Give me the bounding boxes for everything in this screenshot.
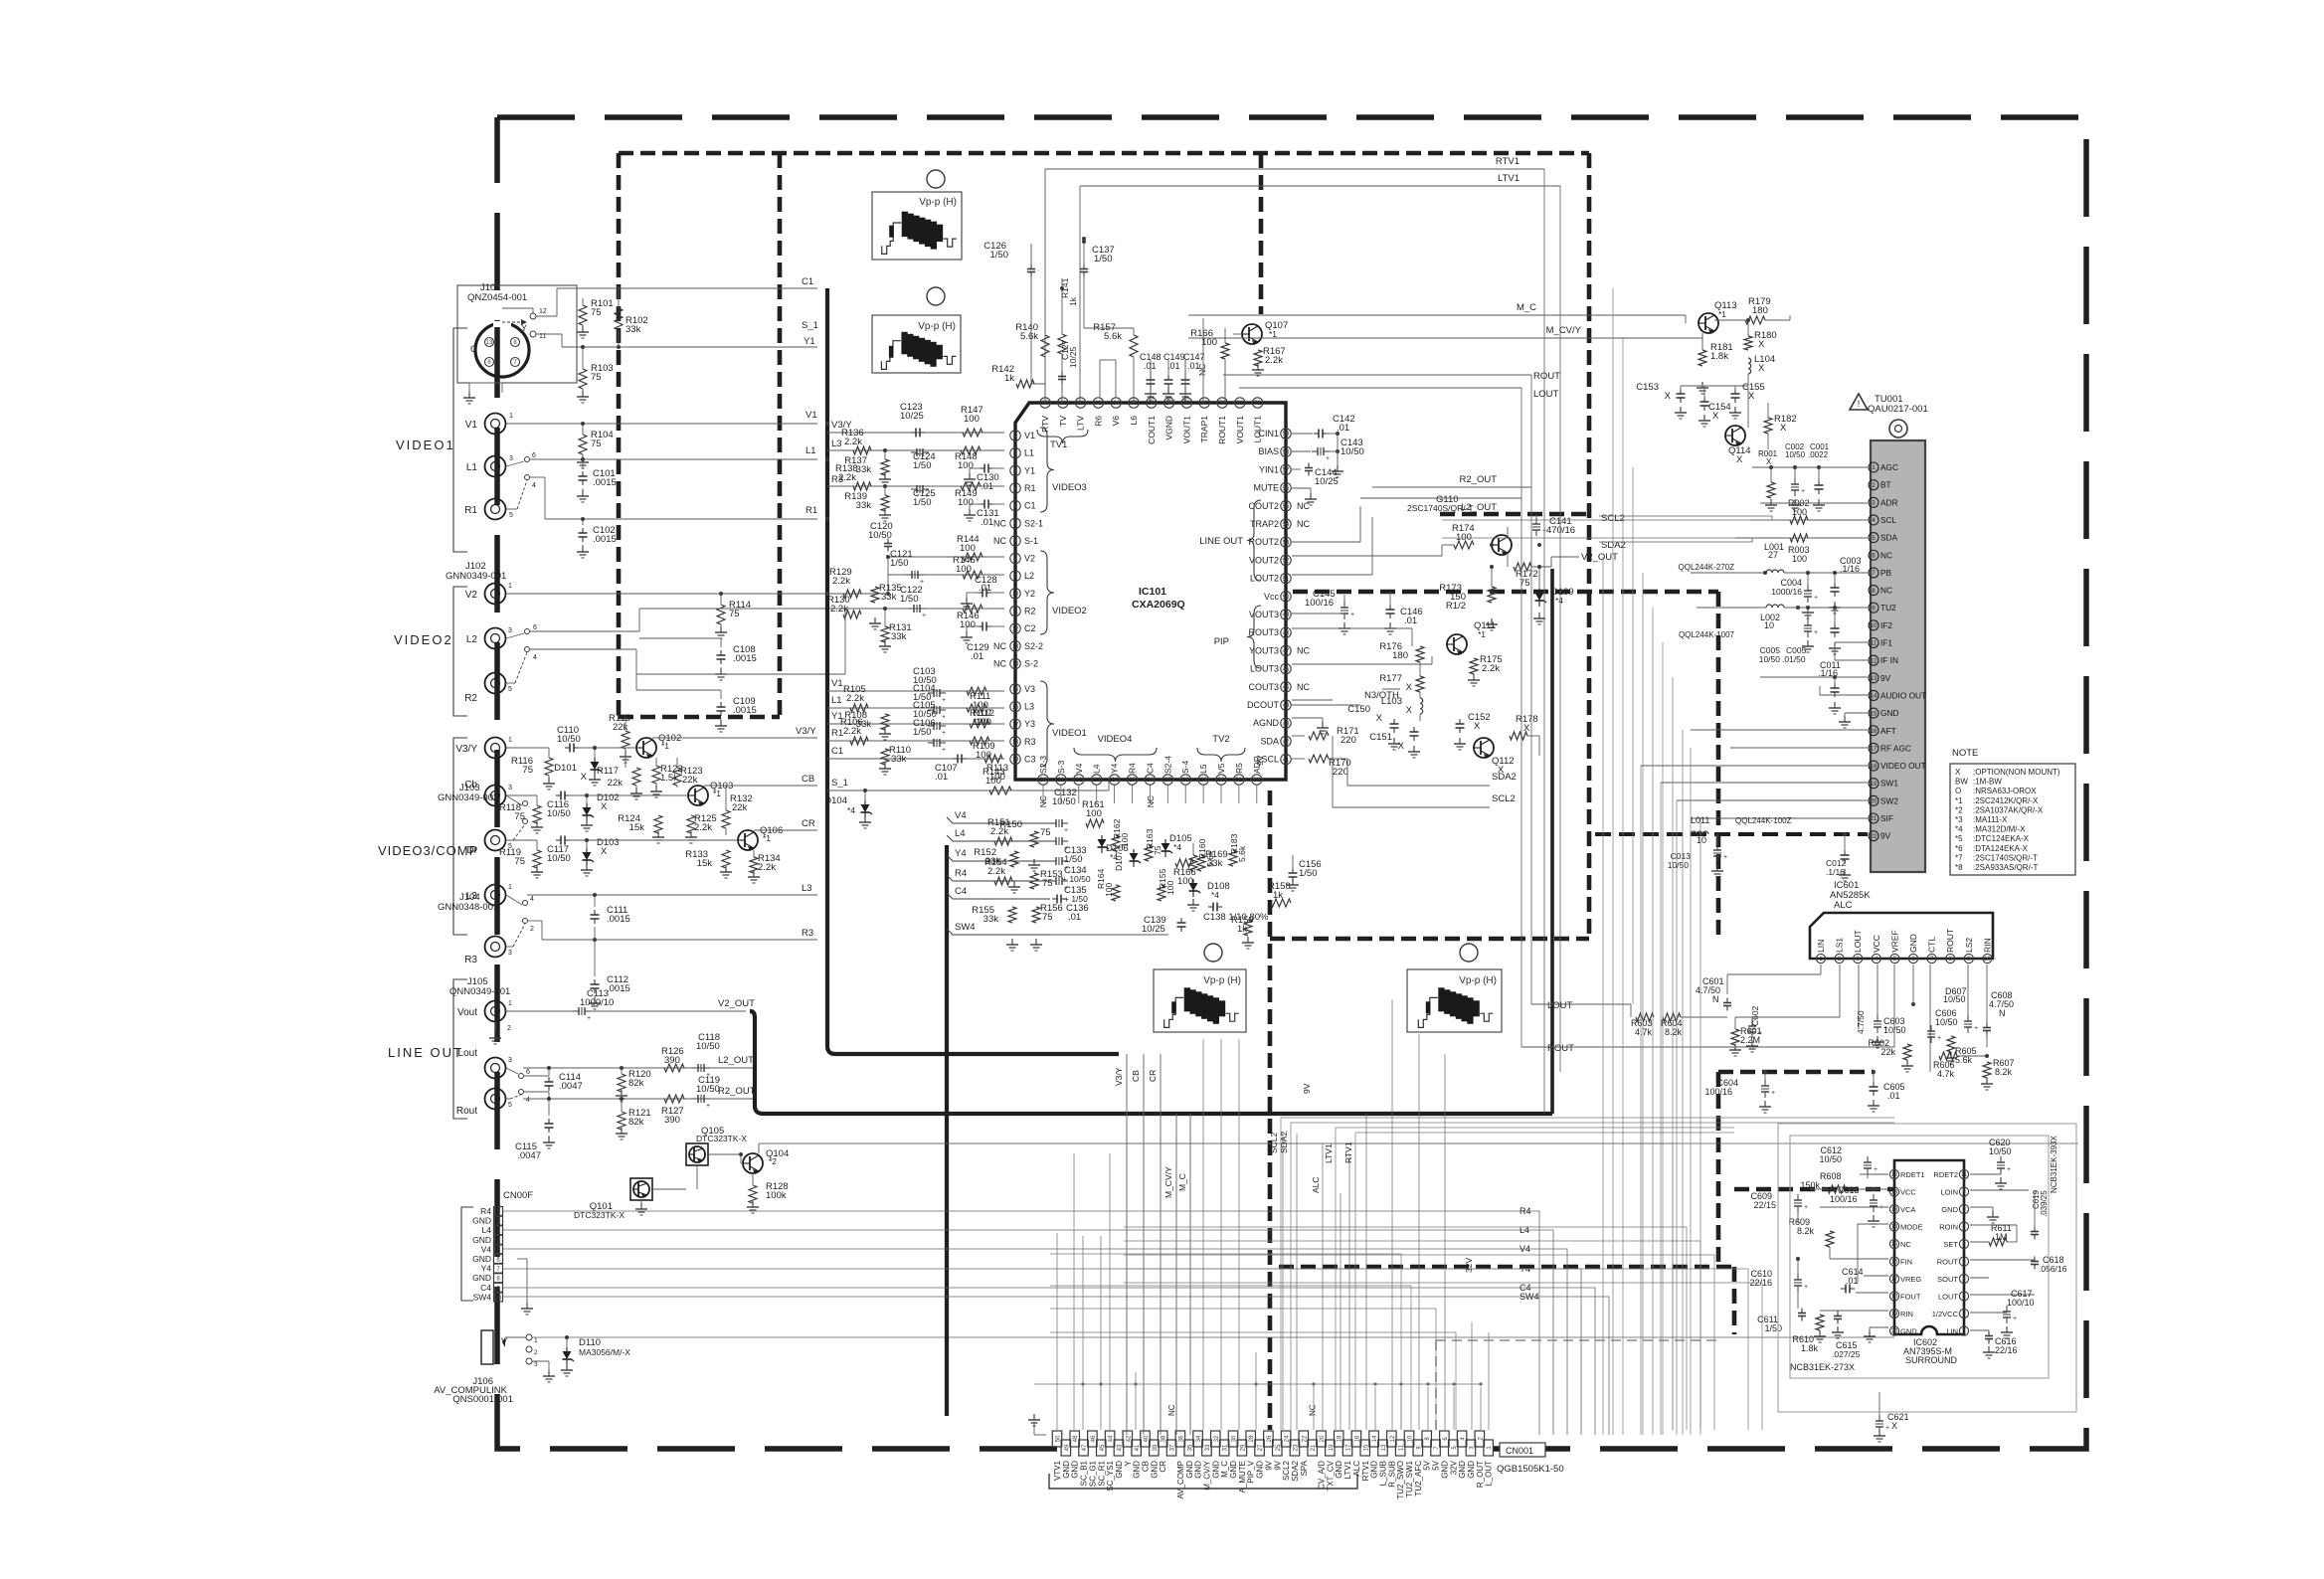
- connector CN001 pin 40 CB: [1141, 1431, 1151, 1447]
- svg-text:10: 10: [1984, 957, 1991, 963]
- IC602 left pin VCA: [1889, 1204, 1898, 1213]
- svg-text:10/50: 10/50: [868, 530, 892, 541]
- wire R2 to IC: [636, 673, 845, 675]
- svg-text:R4: R4: [955, 868, 967, 879]
- svg-text::MA111-X: :MA111-X: [1973, 815, 2008, 824]
- svg-text:5.6k: 5.6k: [1104, 331, 1122, 342]
- connector CN001 pin 42 Y: [1123, 1431, 1133, 1447]
- svg-text:16: 16: [1012, 705, 1019, 711]
- svg-text:Vp-p (H): Vp-p (H): [919, 197, 957, 208]
- brace VIDEO4 group: [1074, 748, 1157, 762]
- IC602 left pin NC: [1889, 1239, 1898, 1248]
- wire M_CV/Y drop: [1175, 1114, 1177, 1435]
- capacitor C120: [887, 539, 889, 544]
- svg-text:+: +: [942, 747, 946, 754]
- net R2_OUT wire: [1372, 486, 1531, 488]
- svg-text:1/50: 1/50: [1064, 854, 1083, 865]
- wire CN001 feeder: [1126, 1054, 1128, 1430]
- wire SW2: [1677, 799, 1868, 801]
- svg-text:100: 100: [1792, 507, 1807, 517]
- connector CN00F pin 4 GND: [494, 1235, 503, 1244]
- svg-text:LOUT: LOUT: [1533, 389, 1559, 400]
- capacitor C151: [1413, 727, 1415, 732]
- wire CN001 feeder: [1391, 999, 1393, 1430]
- IC101 left pin L1: [1010, 447, 1020, 457]
- wire vertical net: [1682, 730, 1684, 1435]
- svg-text:10/50: 10/50: [1989, 1146, 2012, 1156]
- svg-text:75: 75: [1042, 912, 1053, 923]
- inner dashed partition top line: [619, 151, 1589, 156]
- svg-text:R1: R1: [831, 728, 843, 739]
- bus thick vertical center: [945, 845, 949, 1416]
- svg-text:2: 2: [530, 926, 534, 933]
- bus stair C4: [947, 893, 1050, 899]
- svg-text:19: 19: [1871, 782, 1877, 788]
- svg-text:Cb: Cb: [464, 780, 477, 790]
- wire RF AGC: [1730, 747, 1868, 749]
- warning triangle: [1850, 394, 1868, 410]
- svg-text:V3/Y: V3/Y: [1114, 1067, 1124, 1086]
- svg-text:L1: L1: [805, 445, 816, 456]
- capacitor C135: [1055, 877, 1057, 885]
- svg-text:VCC: VCC: [1900, 1187, 1916, 1196]
- J101 switch pins 12 11: [530, 313, 536, 319]
- resistor R109: [970, 737, 989, 745]
- wire CN001 feeder: [1374, 1387, 1376, 1430]
- connector CN001 pin 17 LTV1: [1342, 1440, 1352, 1456]
- wire vertical net: [1690, 748, 1692, 1435]
- svg-text:Y4: Y4: [481, 1264, 492, 1274]
- connector CN001 pin 11 TU2_SWO: [1395, 1440, 1405, 1456]
- resistor R103: [582, 347, 584, 369]
- wire SCL2 drop: [1281, 1118, 1894, 1430]
- wire L1 to IC L3: [827, 707, 1004, 709]
- svg-text:10: 10: [495, 1296, 502, 1302]
- tuner pin 4 SCL: [1869, 515, 1878, 525]
- resistor R105: [850, 704, 868, 712]
- svg-text:S_1: S_1: [802, 320, 818, 331]
- svg-text:SCL2: SCL2: [1282, 1460, 1291, 1481]
- wire LOUT drop: [1858, 965, 1860, 1029]
- IC101 left pin Y1: [1010, 465, 1020, 475]
- wire ROUT 602: [1970, 1259, 2035, 1261]
- wire vertical net: [1672, 677, 1674, 1143]
- wire SW1: [1661, 782, 1868, 784]
- svg-text:55: 55: [1283, 504, 1290, 510]
- capacitor D607: [1964, 1020, 1972, 1022]
- svg-text:V4: V4: [481, 1244, 492, 1254]
- svg-text:100: 100: [1104, 883, 1114, 897]
- resistor R123: [673, 768, 681, 786]
- tuner pin 7 PB: [1869, 568, 1878, 578]
- IC101 top pin R6: [1093, 398, 1103, 408]
- IC101 right pin BIAS: [1281, 446, 1291, 456]
- wire S_1 to IC: [1108, 780, 1110, 790]
- svg-text:5: 5: [509, 512, 513, 519]
- svg-text:75: 75: [1040, 827, 1051, 838]
- IC101 bottom pin L5: [1198, 775, 1208, 785]
- connector CN001 pin 30 GND: [1228, 1431, 1238, 1447]
- svg-text:R608: R608: [1820, 1171, 1842, 1181]
- svg-text:52: 52: [1283, 559, 1290, 565]
- bus stair L4: [947, 835, 1050, 841]
- dashed line to tuner 9V pin: [1595, 832, 1868, 836]
- wire ROUT1 top: [1202, 318, 1204, 403]
- svg-text:1k: 1k: [1273, 890, 1283, 901]
- op-amp IC101 CXA2069Q body: [1015, 403, 1286, 780]
- connector CN001 pin 28 PIP_V: [1246, 1431, 1256, 1447]
- svg-text:14: 14: [1871, 694, 1877, 700]
- connector CN001 pin 35 GND: [1184, 1440, 1194, 1456]
- tuner TU001 mounting ear: [1889, 420, 1907, 438]
- wire CN001 feeder: [1444, 1054, 1446, 1430]
- svg-text:SCL2: SCL2: [1492, 793, 1516, 804]
- svg-text:.1/16: .1/16: [1840, 564, 1860, 574]
- inductor L103: [1420, 698, 1423, 714]
- VIDEO1 group bracket: [453, 328, 467, 552]
- svg-text:+: +: [1937, 1035, 1941, 1042]
- wire V2 up: [721, 593, 888, 595]
- svg-text:CIN1: CIN1: [1258, 429, 1279, 439]
- AGND ground: [1292, 717, 1323, 719]
- svg-text:62: 62: [1077, 401, 1084, 407]
- jack R1: [485, 499, 506, 520]
- svg-text:LINE OUT: LINE OUT: [1199, 536, 1243, 547]
- svg-text:22/16: 22/16: [1995, 1345, 2018, 1355]
- svg-text:100: 100: [964, 414, 980, 425]
- wire M_C drop: [1189, 1114, 1191, 1435]
- wire SOUT: [1970, 1277, 1989, 1279]
- wire L3: [527, 894, 595, 896]
- svg-text:D107: D107: [1114, 850, 1124, 871]
- svg-text:QNN0349-001: QNN0349-001: [449, 986, 510, 997]
- svg-text:5.6k: 5.6k: [1955, 1055, 1973, 1065]
- svg-text:49: 49: [1283, 613, 1290, 618]
- capacitor C001: [1818, 480, 1820, 485]
- resistor R156: [1032, 907, 1040, 923]
- svg-text:QQL244K-270Z: QQL244K-270Z: [1679, 563, 1735, 572]
- capacitor C105: [933, 722, 935, 730]
- wire CN001 feeder: [1135, 1372, 1137, 1430]
- svg-text:RTV1: RTV1: [1496, 156, 1520, 167]
- svg-text:VOUT1: VOUT1: [1181, 416, 1191, 444]
- svg-text:20: 20: [1891, 1329, 1898, 1335]
- svg-text:Vcc: Vcc: [1264, 592, 1280, 602]
- svg-text:10/50: 10/50: [1052, 796, 1076, 807]
- svg-text:ROUT: ROUT: [1533, 371, 1560, 382]
- capacitor C136: [1052, 898, 1057, 900]
- switch S-CbDr: [523, 801, 528, 806]
- svg-text:4: 4: [526, 1097, 530, 1104]
- capacitor C124: [916, 448, 918, 456]
- svg-text:SW2: SW2: [1880, 795, 1898, 805]
- svg-text:NC: NC: [1297, 645, 1310, 655]
- svg-text:AUDIO OUT: AUDIO OUT: [1880, 690, 1926, 700]
- svg-text:*5: *5: [1955, 834, 1963, 843]
- svg-text:53: 53: [1283, 540, 1290, 546]
- svg-text:100: 100: [960, 619, 976, 630]
- wire LOIN: [1970, 1189, 2029, 1191]
- svg-text:.056/16: .056/16: [2039, 1264, 2067, 1274]
- resistor R173: [1488, 587, 1496, 603]
- svg-text:1/50: 1/50: [1299, 868, 1318, 879]
- svg-text:S-1: S-1: [1024, 536, 1038, 546]
- resistor R180: [1744, 336, 1752, 350]
- svg-text:SOUT: SOUT: [1937, 1275, 1958, 1284]
- svg-text:AGND: AGND: [1253, 718, 1280, 728]
- svg-text:GND: GND: [1256, 1461, 1265, 1479]
- svg-text:33k: 33k: [891, 631, 907, 642]
- dashed partition corner horizontal: [1270, 937, 1589, 942]
- svg-text:1: 1: [509, 413, 513, 420]
- svg-text:*2: *2: [1955, 805, 1963, 814]
- svg-text:17: 17: [1012, 722, 1019, 728]
- svg-text:R2: R2: [1024, 607, 1036, 616]
- svg-text:GND: GND: [1150, 1461, 1159, 1479]
- svg-text:1000/16: 1000/16: [1771, 587, 1802, 597]
- wire V3Y out: [652, 737, 817, 739]
- svg-text:5: 5: [508, 1102, 512, 1109]
- wire RTV top: [1044, 350, 1046, 403]
- wire CN001 feeder: [1471, 1322, 1473, 1430]
- svg-text:R117: R117: [597, 766, 619, 777]
- resistor R102: [615, 308, 623, 330]
- wire R2 to IC: [861, 608, 1004, 610]
- tuner pin 6 NC: [1869, 550, 1878, 560]
- tuner pin 14 AUDIO OUT: [1869, 690, 1878, 700]
- wire ROUT2: [1292, 541, 1360, 543]
- svg-text:19: 19: [1012, 758, 1019, 764]
- wire CB drop: [1143, 1054, 1145, 1435]
- IC101 top pin TRAP1: [1199, 398, 1209, 408]
- IC101 top pin COUT1: [1147, 398, 1157, 408]
- IC101 left pin V3: [1010, 684, 1020, 694]
- svg-text:.027/25: .027/25: [1832, 1349, 1861, 1359]
- IC101 right pin SCL: [1281, 754, 1291, 764]
- svg-text:V4: V4: [1074, 763, 1084, 774]
- svg-text:TV2: TV2: [1212, 734, 1229, 745]
- capacitor C002: [1791, 483, 1799, 485]
- svg-text:1/50: 1/50: [1094, 254, 1113, 264]
- svg-text:V2: V2: [1024, 554, 1035, 564]
- svg-text:SC_YS1: SC_YS1: [1106, 1460, 1115, 1491]
- svg-text:X: X: [1758, 339, 1765, 350]
- IC601 pin 7 CTL: [1927, 954, 1936, 963]
- connector CN001 pin 12 R_SUB: [1387, 1431, 1397, 1447]
- transistor Q112: [1474, 738, 1494, 758]
- wire CN001 feeder: [1427, 1387, 1429, 1430]
- svg-text:100: 100: [958, 497, 974, 508]
- svg-text::2SC2412K/QR/-X: :2SC2412K/QR/-X: [1973, 796, 2039, 805]
- svg-text:LTV1: LTV1: [1324, 1143, 1334, 1163]
- wire L2: [529, 630, 639, 632]
- resistor R171 SDA: [1292, 735, 1305, 737]
- svg-text:X: X: [601, 801, 608, 812]
- capacitor C106: [933, 739, 935, 747]
- svg-text:TXT_CV: TXT_CV: [1326, 1460, 1335, 1491]
- jack L2: [485, 628, 506, 649]
- IC602 left pin GND: [1889, 1326, 1898, 1335]
- svg-text:.0015: .0015: [733, 653, 757, 664]
- resistor R126: [664, 1064, 684, 1072]
- connector CN001 pin 19 TXT_CV: [1326, 1440, 1336, 1456]
- resistor R114: [720, 594, 722, 605]
- capacitor C117: [556, 839, 561, 841]
- IC101 right pin ROUT3: [1281, 627, 1291, 637]
- svg-text:390: 390: [664, 1055, 680, 1066]
- svg-text:.01: .01: [1846, 1276, 1859, 1286]
- svg-text:S2-1: S2-1: [1024, 518, 1043, 528]
- waveform box 3: [1154, 969, 1246, 1032]
- svg-text:X: X: [1736, 454, 1743, 465]
- svg-text:1/50: 1/50: [913, 727, 932, 738]
- connector CN001 pin 3 GND: [1466, 1440, 1476, 1456]
- svg-text:VGND: VGND: [1164, 416, 1174, 440]
- resistor R181: [1698, 350, 1706, 366]
- capacitor C104: [933, 706, 935, 714]
- capacitor C610: [1794, 1279, 1802, 1281]
- svg-text:+ 10/50: + 10/50: [1062, 874, 1091, 884]
- wire corner net: [1050, 1254, 1401, 1430]
- IC101 right pin AGND: [1281, 718, 1291, 728]
- connector CN001 pin 43 GND: [1114, 1440, 1124, 1456]
- svg-text:.01: .01: [1404, 615, 1417, 626]
- svg-text:22k: 22k: [682, 775, 698, 786]
- net RTV1 wire: [1045, 168, 1544, 170]
- resistor R138: [853, 482, 871, 490]
- tuner pin 2 BT: [1869, 480, 1878, 490]
- IC601 pin 2 LS1: [1835, 954, 1844, 963]
- svg-text:56: 56: [1283, 486, 1290, 492]
- wire CN001 feeder: [1340, 1193, 1341, 1430]
- transistor Q113: [1698, 313, 1718, 333]
- svg-text:S2-4: S2-4: [1162, 756, 1172, 774]
- resistor R127: [664, 1095, 684, 1103]
- IC101 left pin R3: [1010, 737, 1020, 747]
- svg-text:V1: V1: [1024, 431, 1035, 440]
- svg-text:1: 1: [508, 884, 512, 891]
- svg-text:46: 46: [1283, 667, 1290, 673]
- wire Y1 to IC Y3: [827, 723, 1004, 725]
- IC601 pin 8 ROUT: [1946, 954, 1955, 963]
- svg-text:.0015: .0015: [607, 983, 630, 994]
- resistor R182: [1764, 418, 1772, 434]
- svg-text:SURROUND: SURROUND: [1905, 1355, 1958, 1365]
- wire corner net: [1050, 1286, 1411, 1430]
- IC601 pin 4 VCC: [1872, 954, 1880, 963]
- wire CN001 feeder: [1073, 1153, 1075, 1430]
- svg-text:SC_B1: SC_B1: [1080, 1460, 1089, 1486]
- net M_C wire: [1188, 314, 1686, 316]
- IC101 right pin COUT3: [1281, 682, 1291, 692]
- resistor R133: [722, 850, 730, 868]
- junction: [1060, 286, 1064, 290]
- svg-text:22k: 22k: [732, 802, 748, 813]
- wire AGC: [1752, 466, 1868, 468]
- svg-text:1000/10: 1000/10: [580, 997, 614, 1008]
- svg-text:GND: GND: [1458, 1461, 1467, 1479]
- svg-text:L4: L4: [1520, 1225, 1529, 1235]
- IC602 left pin FIN: [1889, 1257, 1898, 1266]
- connector CN001 pin 24 SCL2: [1281, 1431, 1291, 1447]
- svg-text:BT: BT: [1880, 480, 1891, 490]
- IC602 outer box: [1778, 1124, 2076, 1412]
- svg-text:66: 66: [1148, 401, 1155, 407]
- wire V3/Y drop: [1126, 1054, 1128, 1435]
- svg-text::2SA933AS/QR/-T: :2SA933AS/QR/-T: [1973, 863, 2038, 872]
- wire L2 to IC: [888, 574, 1004, 576]
- svg-text:1: 1: [508, 583, 512, 590]
- svg-text:100: 100: [960, 543, 976, 554]
- svg-text:CB: CB: [1131, 1070, 1141, 1082]
- connector CN00F pin 7 Y4: [494, 1264, 503, 1273]
- resistor R003: [1790, 534, 1808, 542]
- svg-text:LIN: LIN: [1816, 940, 1826, 953]
- IC101 left pin L2: [1010, 571, 1020, 581]
- junction: [1336, 432, 1340, 436]
- connector CN001 pin 16 ALC: [1351, 1431, 1361, 1447]
- wire CN001 feeder: [1488, 1332, 1490, 1430]
- capacitor C121: [911, 571, 913, 579]
- resistor R175: [1470, 658, 1478, 674]
- capacitor C144: [1292, 468, 1301, 470]
- IC101 top pin VOUT1: [1181, 398, 1191, 408]
- svg-text:SDA2: SDA2: [1279, 1132, 1289, 1153]
- svg-text:100: 100: [956, 564, 972, 575]
- resistor R158: [1271, 899, 1291, 907]
- resistor R602: [1903, 1044, 1911, 1060]
- wire tuner SDA long: [1442, 537, 1735, 539]
- svg-text:PIP: PIP: [1214, 636, 1229, 647]
- svg-text:+: +: [1885, 1425, 1889, 1432]
- resistor R166 top: [1221, 343, 1229, 359]
- svg-text:470/16: 470/16: [1546, 525, 1575, 536]
- capacitor C013: [1713, 849, 1721, 851]
- svg-text:Vp-p (H): Vp-p (H): [918, 321, 956, 332]
- svg-text:9V: 9V: [1264, 1460, 1273, 1470]
- svg-text:LTV1: LTV1: [1343, 1460, 1352, 1479]
- svg-text:220: 220: [1333, 767, 1348, 778]
- resistor R145: [963, 571, 983, 579]
- svg-text:2.2k: 2.2k: [838, 472, 856, 483]
- svg-text:5V: 5V: [1423, 1460, 1432, 1470]
- svg-text:+: +: [942, 697, 946, 704]
- svg-text:69: 69: [1201, 401, 1208, 407]
- wire R1 to bus: [529, 476, 545, 478]
- capacitor C616: [1988, 1331, 1990, 1336]
- wire J101 C output: [536, 315, 557, 317]
- inner dashed box bottom edge: [619, 715, 780, 720]
- svg-text:LOIN: LOIN: [1940, 1187, 1958, 1196]
- capacitor C137: [1083, 264, 1085, 269]
- tuner pin 16 AFT: [1869, 726, 1878, 736]
- svg-text:.0015: .0015: [593, 477, 617, 488]
- IC101 right pin CIN1: [1281, 429, 1291, 439]
- wire L3 to IC L1: [827, 449, 1004, 451]
- svg-text:+: +: [706, 1103, 710, 1110]
- svg-text:S_1: S_1: [831, 778, 848, 789]
- svg-text:V6: V6: [1111, 416, 1121, 427]
- tuner pin 8 NC: [1869, 586, 1878, 596]
- wire VOUT3: [1292, 613, 1344, 614]
- svg-text:AV_COMP: AV_COMP: [1176, 1461, 1185, 1499]
- wire SIF: [1691, 817, 1868, 819]
- svg-text:R1/2: R1/2: [1446, 601, 1466, 612]
- svg-text:+: +: [1879, 1204, 1883, 1211]
- svg-text:GND: GND: [472, 1254, 491, 1264]
- svg-text:R_OUT: R_OUT: [1476, 1461, 1485, 1488]
- jack R2: [485, 673, 506, 694]
